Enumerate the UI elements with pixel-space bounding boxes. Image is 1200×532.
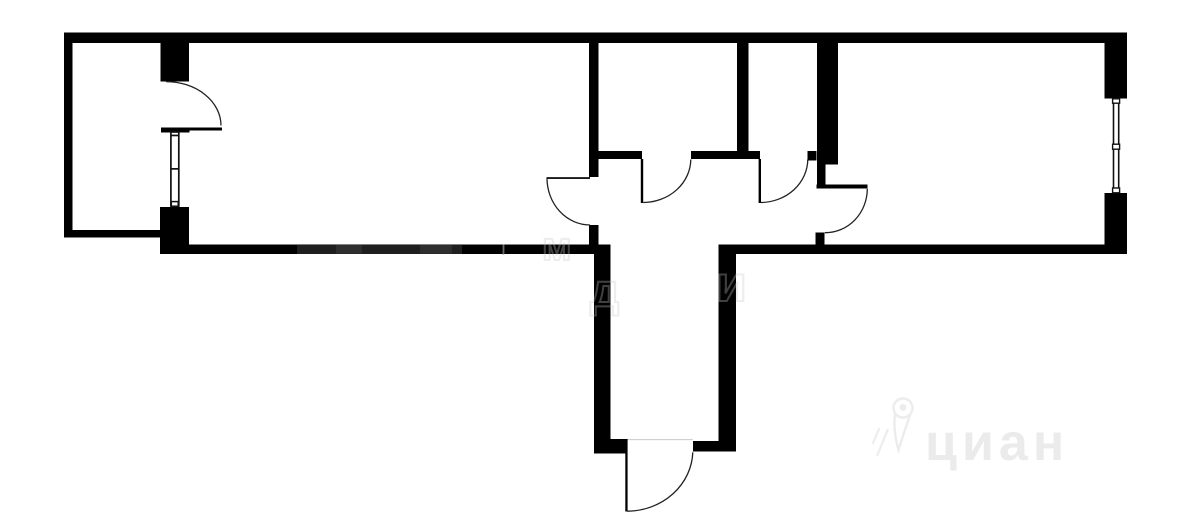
balcony left wall	[64, 33, 73, 238]
right outer wall bottom segment	[1105, 193, 1128, 254]
balcony window	[171, 132, 179, 206]
door2 arc	[761, 160, 808, 203]
wall B between small rooms	[737, 43, 749, 159]
door3 arc	[825, 189, 868, 233]
balcony partition wall top segment	[161, 43, 190, 82]
big room door arc	[547, 178, 590, 225]
corridor bottom-left wall	[594, 439, 626, 454]
big room door leaf	[547, 177, 591, 179]
right wall window	[1113, 99, 1120, 193]
stub below door3 arc	[816, 233, 825, 255]
top wall	[64, 33, 1127, 44]
corridor door threshold line	[627, 439, 693, 441]
jamb stub right of door2	[808, 151, 817, 161]
balcony bottom wall	[64, 230, 161, 238]
svg-text:и: и	[716, 256, 747, 312]
wall C narrow	[817, 165, 826, 185]
right outer wall top segment	[1105, 33, 1128, 99]
door3 leaf	[817, 185, 868, 189]
watermark under-layer letters (visible on white)	[542, 225, 747, 316]
main bottom wall right span	[719, 245, 1128, 255]
corridor door leaf	[625, 439, 627, 512]
corridor door arc	[627, 452, 692, 511]
corridor right wall	[719, 245, 737, 452]
balcony door arc	[166, 82, 221, 126]
corridor bottom-right wall	[693, 441, 736, 452]
wall C wide	[817, 43, 838, 165]
door1 arc	[643, 160, 691, 203]
balcony door leaf	[161, 128, 222, 131]
svg-text:м: м	[542, 225, 572, 269]
cian logo watermark: pin icon	[873, 399, 913, 457]
wall A lower	[589, 225, 599, 254]
main bottom wall left span	[160, 245, 611, 255]
door1 leaf	[641, 159, 643, 203]
door2 leaf	[759, 159, 761, 203]
svg-text:циан: циан	[925, 414, 1069, 472]
watermark over-layer letters (faint on black walls)	[542, 225, 747, 316]
corridor left wall	[594, 245, 611, 454]
svg-text:д: д	[590, 264, 619, 316]
middle bottom wall segment	[691, 151, 760, 159]
wall A upper (big room / hallway)	[589, 43, 599, 177]
balcony partition bottom block	[160, 207, 189, 254]
watermark band patches	[297, 245, 462, 254]
small room 1 bottom wall	[599, 151, 643, 159]
